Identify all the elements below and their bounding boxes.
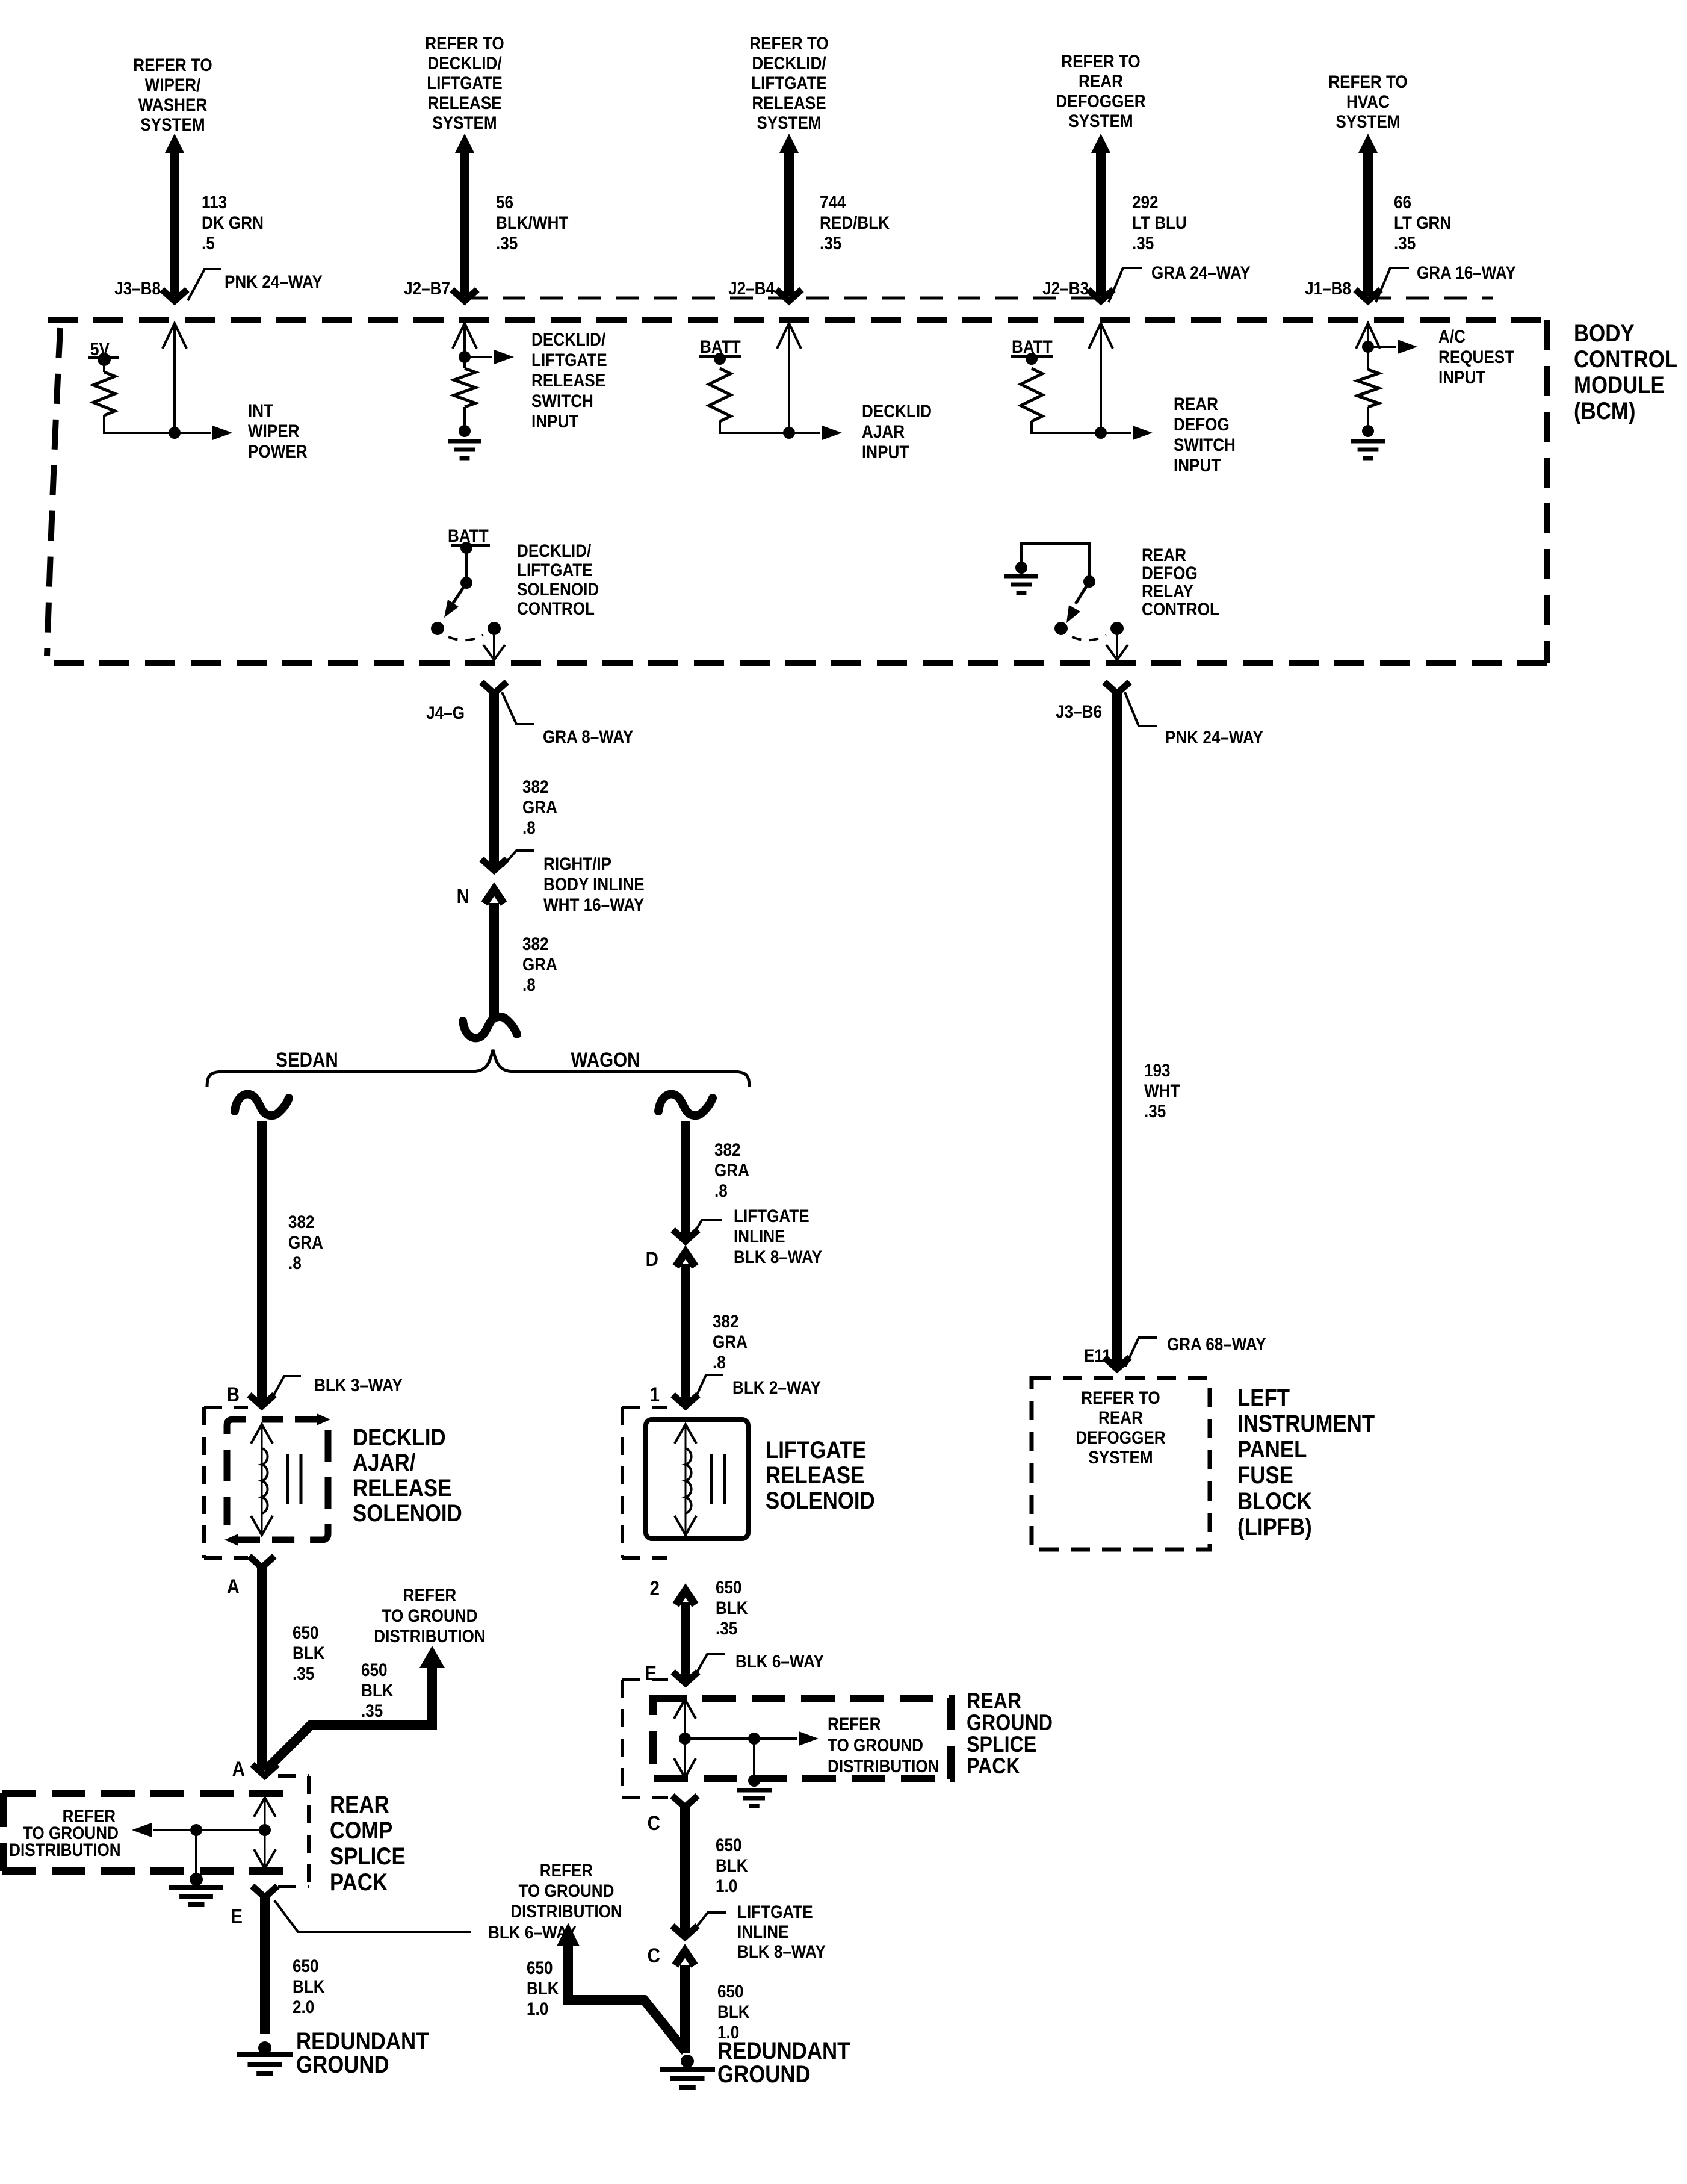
switch S2 (rear defog relay control) [1015,544,1128,660]
svg-text:J2–B7: J2–B7 [404,278,450,298]
switch S1 (decklid/liftgate solenoid control) [431,548,505,660]
arrow DECKLID/LIFTGATE RELEASE SWITCH INPUT [465,356,492,358]
svg-text:E: E [231,1905,243,1928]
callout RIGHT/IP BODY INLINE WHT 16-WAY [502,851,534,867]
svg-text:J2–B3: J2–B3 [1042,278,1089,298]
ground col2 [459,425,471,437]
connector boundary (decklid solenoid, dashed bracket) [204,1407,248,1558]
splice bus (rear ground) [674,1699,819,1778]
resistor (col3) [709,368,731,421]
pin J3-B6 wire below BCM [1104,682,1130,1369]
svg-text:E11: E11 [1084,1345,1111,1365]
svg-text:D: D [646,1247,658,1270]
solenoid L1 symbol [251,1424,301,1535]
callout GRA 24-WAY at J2-B3 [1109,268,1142,302]
wire to system #4 (vertical arrow up) [1088,134,1113,301]
node J3-B8 input line [163,323,187,433]
ground (rear comp splice pack) [190,1873,203,1886]
callout GRA 8-WAY [502,692,534,724]
wire splice to ground (rear) [753,1739,755,1777]
arrow INT WIPER POWER [175,432,211,434]
ground col5 [1362,425,1374,437]
callout GRA 16-WAY at J1-B8 [1376,268,1409,302]
arrow to ground distribution (bottom) [557,1923,580,1946]
svg-text:1: 1 [650,1383,660,1406]
callout BLK 3-WAY [270,1376,301,1403]
arrow to ground distribution (left) [419,1646,445,1668]
solenoid L1 box (dashed) [224,1413,330,1546]
callout PNK 24-WAY (J3-B6) [1125,692,1157,726]
resistor (wiper pull-up) [103,359,105,372]
callout BLK 6-WAY (wagon) [693,1654,725,1680]
break symbol sedan branch top [235,1094,289,1116]
connector boundary (liftgate solenoid, dashed bracket) [622,1407,667,1558]
wire wagon 382 GRA .8 (upper) [681,1121,690,1238]
junction dot INT WIPER POWER [169,427,181,439]
wire to system #1 (vertical arrow up) [162,134,187,301]
svg-text:GRA 24–WAY: GRA 24–WAY [1151,262,1251,282]
resistor (col2 pull-down) [463,357,466,368]
node J1-B8 input line [1356,323,1380,349]
callout GRA 68-WAY [1125,1338,1157,1367]
BCM module box (dashed border) [45,320,1547,663]
resistor (col5) [1367,347,1369,370]
rear ground splice pack outer boundary (dashed) [622,1680,668,1798]
wire 650 BLK 1.0 (upper) [672,1796,698,1937]
inline connector N wire (male arrow) [484,889,504,1020]
wire sedan branch 382 GRA .8 [257,1121,267,1403]
svg-text:J3–B6: J3–B6 [1056,701,1102,721]
wire resistor to junction col3 [720,421,787,433]
svg-text:REFER TOREARDEFOGGERSYSTEM: REFER TOREARDEFOGGERSYSTEM [1076,1388,1165,1467]
svg-text:J4–G: J4–G [426,703,465,722]
junction dot A/C request [1362,341,1374,353]
svg-text:GRA 16–WAY: GRA 16–WAY [1417,262,1516,282]
pin J4-G wire below BCM [481,682,507,870]
callout BLK 2-WAY [693,1375,723,1403]
wire 650 BLK 1.0 (lower) [675,1951,695,2053]
rear ground splice pack box (dashed) [653,1698,951,1779]
connector line J2 (thin dashed) [465,297,1101,300]
connector line J1 (thin dashed) [1368,297,1493,300]
node J2-B3 input line [1089,323,1113,433]
svg-text:N: N [457,884,469,907]
ground (rear ground splice pack) [748,1775,760,1787]
svg-text:PNK 24–WAY: PNK 24–WAY [224,271,323,291]
node J2-B4 input line [777,323,801,433]
svg-text:J3–B8: J3–B8 [114,278,161,298]
callout PNK 24-WAY at J3-B8 [188,269,221,300]
rear comp splice pack outer boundary (dashed) [278,1776,309,1887]
node J2-B7 input line [453,323,477,357]
svg-text:DECKLIDAJAR/RELEASESOLENOID: DECKLIDAJAR/RELEASESOLENOID [353,1424,462,1527]
wire branch to ground distribution (bottom thick L) [568,1943,686,2052]
svg-text:J1–B8: J1–B8 [1305,278,1351,298]
solenoid L2 box (solid) [646,1419,748,1539]
svg-text:GRA 68–WAY: GRA 68–WAY [1167,1334,1266,1354]
wire to system #2 (vertical arrow up) [452,134,477,301]
break symbol (harness split) [463,1017,517,1038]
splice bus (rear comp) [132,1798,276,1869]
svg-text:A: A [232,1757,245,1780]
svg-text:DECKLID/LIFTGATESOLENOIDCONTRO: DECKLID/LIFTGATESOLENOIDCONTROL [517,541,599,618]
brace sedan/wagon split [207,1050,749,1087]
svg-text:REFER TODECKLID/LIFTGATERELEAS: REFER TODECKLID/LIFTGATERELEASESYSTEM [749,33,828,132]
svg-text:BLK 2–WAY: BLK 2–WAY [732,1377,821,1397]
svg-text:J2–B4: J2–B4 [728,278,775,298]
wire to ground col5 [1367,407,1369,429]
svg-text:C: C [648,1811,660,1834]
ground (relay control) [1004,574,1038,579]
inline connector D wire (male arrow) [673,1252,698,1406]
arrow A/C REQUEST INPUT [1368,346,1396,348]
callout LIFTGATE INLINE BLK 8-WAY (upper) [692,1220,722,1236]
wire to ground col2 [463,407,466,429]
wire 650 BLK .35 (sedan lower) [249,1556,274,1770]
svg-text:SEDAN: SEDAN [276,1048,338,1071]
callout BLK 6-WAY (left) [274,1900,471,1932]
rear comp splice pack box (dashed) [2,1793,291,1871]
connector vee into rear comp splice pack [252,1764,277,1776]
left instrument panel fuse block box (dashed) [1032,1378,1210,1550]
wire splice to ground [195,1830,197,1878]
svg-text:GRA 8–WAY: GRA 8–WAY [543,727,634,746]
svg-text:LIFTGATERELEASESOLENOID: LIFTGATERELEASESOLENOID [766,1436,875,1514]
redundant ground (right) [681,2055,694,2068]
redundant ground (left) [258,2041,271,2055]
svg-text:B: B [227,1383,240,1406]
junction dot decklid release switch [459,351,471,363]
svg-text:REFER TODECKLID/LIFTGATERELEAS: REFER TODECKLID/LIFTGATERELEASESYSTEM [425,33,504,132]
svg-text:PNK 24–WAY: PNK 24–WAY [1165,727,1263,747]
svg-text:REFER TOREARDEFOGGERSYSTEM: REFER TOREARDEFOGGERSYSTEM [1056,51,1145,131]
callout LIFTGATE INLINE BLK 8-WAY (lower) [692,1913,726,1932]
arrow REAR DEFOG SWITCH INPUT [1101,432,1131,434]
svg-text:BLK 6–WAY: BLK 6–WAY [735,1651,824,1671]
junction dot REAR DEFOG SWITCH [1095,427,1107,439]
svg-text:BLK 3–WAY: BLK 3–WAY [314,1375,403,1395]
wire to system #5 (vertical arrow up) [1355,134,1381,301]
resistor (col4) [1021,368,1042,421]
wire to system #3 (vertical arrow up) [776,134,802,301]
svg-text:REFER TOWIPER/WASHERSYSTEM: REFER TOWIPER/WASHERSYSTEM [133,55,212,134]
break symbol wagon branch top [658,1094,713,1116]
wire 650 BLK 2.0 [252,1886,277,2034]
solenoid L2 symbol [675,1424,725,1535]
svg-text:C: C [648,1944,660,1967]
svg-text:WAGON: WAGON [571,1048,640,1071]
wire 650 BLK .35 (wagon) [673,1590,698,1683]
wire resistor to junction col4 [1032,421,1098,433]
svg-text:A: A [227,1575,240,1598]
svg-text:2: 2 [650,1577,660,1599]
arrow DECKLID AJAR INPUT [789,432,820,434]
wire branch to ground distribution (thick L) [265,1665,432,1771]
wire resistor to junction [104,415,172,433]
junction dot DECKLID AJAR [783,427,795,439]
